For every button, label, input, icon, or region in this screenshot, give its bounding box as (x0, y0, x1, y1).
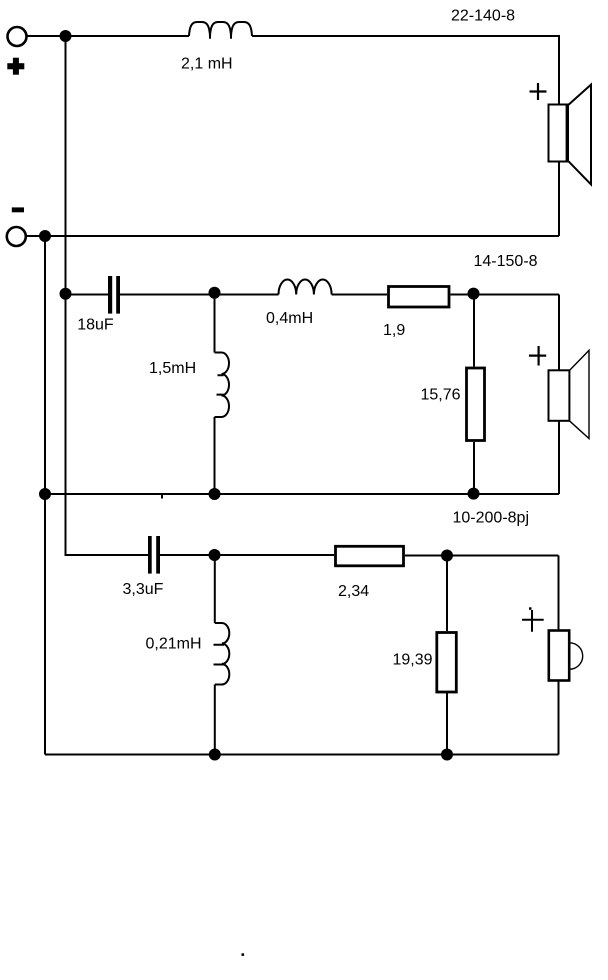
svg-text:22-140-8: 22-140-8 (451, 8, 515, 25)
svg-text:14-150-8: 14-150-8 (474, 253, 538, 270)
resistor R4 wire bottom (446, 693, 448, 755)
wire C1 to L2 (120, 294, 279, 296)
plus mark SP2 (529, 346, 546, 366)
plus mark SP1 (530, 83, 547, 100)
svg-text:0,4mH: 0,4mH (266, 310, 313, 327)
resistor R2 wire bottom (473, 442, 475, 494)
inductor L4 0,21mH (215, 623, 230, 685)
wire R1 to SP2 (451, 294, 560, 296)
wire plus feed vertical x65 (65, 36, 67, 555)
wire SP2 bottom down (558, 421, 560, 494)
minus symbol input (12, 207, 24, 212)
wire top rail left (27, 35, 189, 37)
inductor L3 1,5mH wire top (214, 295, 216, 353)
svg-text:18uF: 18uF (77, 317, 114, 334)
svg-text:2,1 mH: 2,1 mH (181, 56, 233, 73)
wire to capacitor C1 (66, 294, 109, 296)
node F junction dot (39, 488, 51, 500)
terminal PLUS input (8, 27, 27, 46)
inductor L1 2,1 mH (189, 22, 252, 36)
wire corner to capacitor C2 (66, 554, 149, 555)
node A junction dot (60, 30, 72, 42)
plus mark SP3 tick (529, 607, 532, 610)
wire down to SP2 (558, 295, 560, 371)
plus symbol input (7, 58, 24, 75)
node C junction dot (60, 288, 72, 300)
node G junction dot (209, 488, 221, 500)
stray tick on rail2 (161, 495, 163, 499)
wire minus rail (26, 235, 559, 237)
wire SP3 bottom down (558, 681, 560, 755)
wire rail2 (45, 493, 559, 495)
terminal MINUS input (7, 227, 26, 246)
node E junction dot (468, 288, 480, 300)
wire down to speaker SP1 (558, 35, 560, 105)
wire R3 to SP3 (405, 555, 559, 557)
inductor L3 wire bottom (214, 417, 216, 494)
wire SP1 bottom down (558, 162, 560, 237)
svg-text:19,39: 19,39 (393, 652, 433, 669)
node D junction dot (209, 287, 221, 299)
node B junction dot (39, 230, 51, 242)
wire L2 to R1 (332, 294, 387, 296)
svg-text:10-200-8pj: 10-200-8pj (453, 510, 530, 527)
resistor R4 19,39 (437, 633, 457, 693)
speaker SP2 14-150-8 (549, 350, 590, 438)
node I junction dot (209, 549, 221, 561)
svg-text:15,76: 15,76 (421, 387, 461, 404)
svg-text:2,34: 2,34 (338, 583, 369, 600)
capacitor C2 3,3uF (148, 536, 160, 574)
inductor L4 wire bottom (214, 685, 216, 755)
node J junction dot (441, 550, 453, 562)
speaker SP3 10-200-8pj (549, 631, 583, 681)
inductor L3 1,5mH (215, 353, 230, 418)
wire C2 to R3 (160, 554, 334, 556)
resistor R2 15,76 (467, 368, 485, 441)
svg-text:3,3uF: 3,3uF (123, 581, 164, 598)
svg-text:1,9: 1,9 (383, 322, 405, 339)
wire bottom rail (45, 754, 559, 756)
node K junction dot (209, 749, 221, 761)
speaker SP1 22-140-8 (549, 85, 592, 185)
resistor R3 2,34 (336, 546, 404, 566)
svg-text:0,21mH: 0,21mH (146, 636, 202, 653)
resistor R1 1,9 (389, 287, 450, 308)
capacitor C1 18uF (108, 276, 120, 314)
inductor L4 wire top (214, 555, 216, 623)
node L junction dot (441, 749, 453, 761)
wire down to SP3 (558, 556, 560, 631)
plus mark SP3 (522, 610, 544, 632)
inductor L2 0,4mH (279, 280, 332, 295)
stray dot bottom (242, 953, 245, 956)
wire minus feed vertical x45 (44, 236, 46, 755)
resistor R4 wire top (446, 556, 448, 632)
wire top rail right (252, 35, 559, 37)
resistor R2 wire top (473, 295, 475, 367)
node H junction dot (468, 488, 480, 500)
svg-text:1,5mH: 1,5mH (149, 360, 196, 377)
